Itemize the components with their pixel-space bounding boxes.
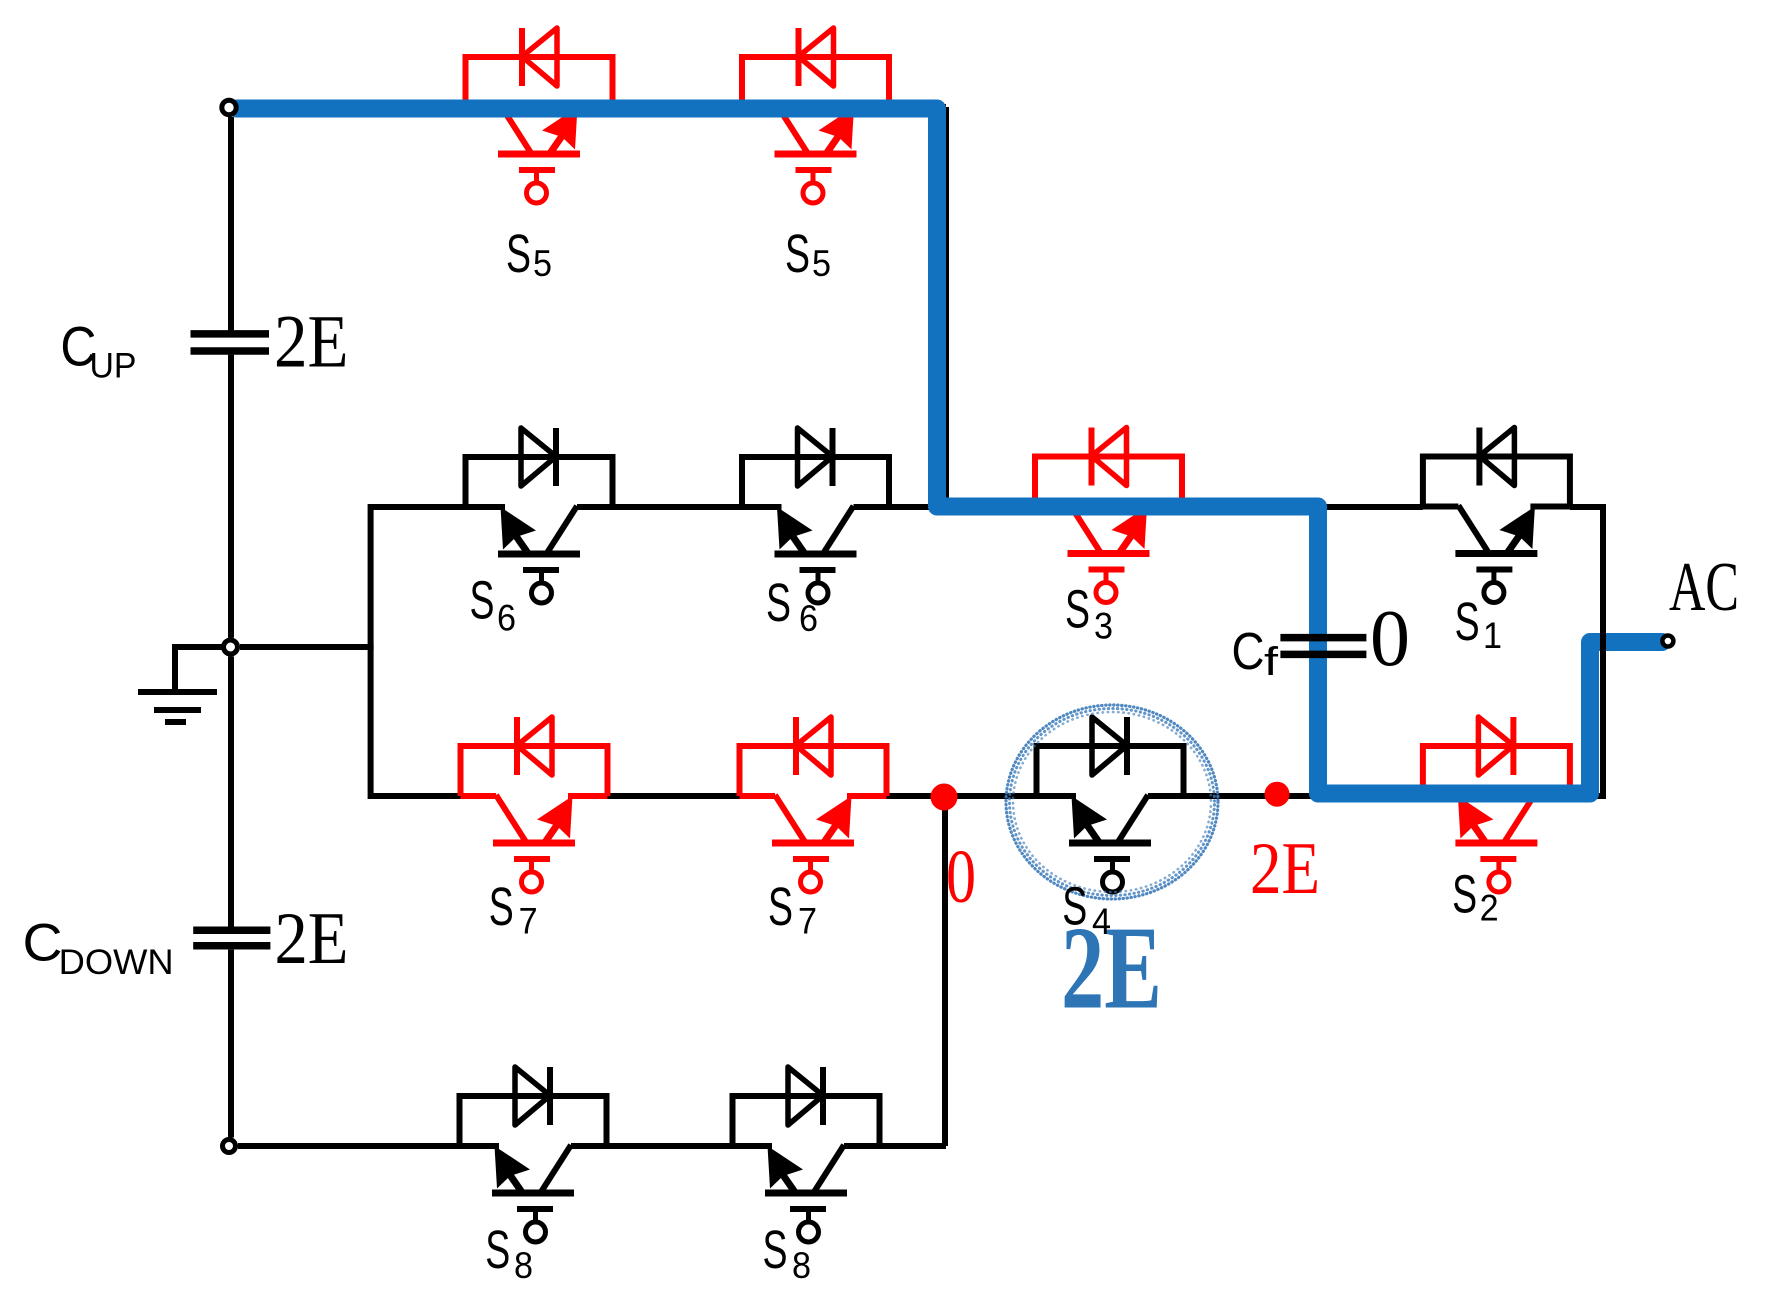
terminal bottom-left <box>223 1140 236 1153</box>
svg-text:C: C <box>1232 623 1265 681</box>
svg-text:6: 6 <box>497 598 516 639</box>
terminal neutral node <box>224 640 238 654</box>
svg-text:7: 7 <box>798 900 817 941</box>
transistor S5 (right) <box>742 28 889 203</box>
transistor S6 (left) <box>466 428 613 603</box>
transistor S8 (left) <box>460 1067 607 1242</box>
transistor S7 (right) <box>740 717 887 892</box>
svg-text:2E: 2E <box>1250 828 1320 910</box>
svg-text:S: S <box>785 224 810 284</box>
wire row C rail <box>371 793 1603 799</box>
svg-text:AC: AC <box>1669 549 1739 626</box>
svg-text:8: 8 <box>514 1245 533 1286</box>
transistor S6 (right) <box>742 428 889 603</box>
svg-text:S: S <box>768 877 793 937</box>
wire bottom rail <box>238 1143 946 1149</box>
transistor S7 (left) <box>461 717 608 892</box>
svg-text:S: S <box>1455 592 1480 652</box>
terminal top-left <box>222 100 236 114</box>
wire top-right vertical drop <box>943 107 949 507</box>
svg-text:2E: 2E <box>274 301 349 384</box>
wire top rail (+2E bus) <box>238 104 946 110</box>
svg-text:S: S <box>1065 580 1090 640</box>
node 0 junction dot <box>931 784 958 811</box>
dotted circle highlight around S4 <box>1006 705 1218 899</box>
transistor S3 <box>1035 428 1182 603</box>
transistor S8 (right) <box>733 1067 880 1242</box>
svg-text:6: 6 <box>799 598 818 639</box>
capacitor C_DOWN <box>193 930 270 945</box>
svg-text:f: f <box>1264 640 1279 684</box>
wire left branch vertical <box>368 504 374 799</box>
svg-text:S: S <box>485 1220 510 1280</box>
svg-text:UP: UP <box>90 346 137 385</box>
svg-text:S: S <box>470 570 495 630</box>
svg-text:S: S <box>489 877 514 937</box>
transistor S2 <box>1423 717 1570 892</box>
wire node-0 vertical <box>942 796 948 1146</box>
svg-text:5: 5 <box>533 243 552 284</box>
svg-text:2E: 2E <box>275 898 349 980</box>
svg-text:1: 1 <box>1483 615 1502 656</box>
node 2E junction dot <box>1265 782 1290 807</box>
svg-text:8: 8 <box>792 1245 811 1286</box>
capacitor C_UP <box>191 334 270 351</box>
svg-text:DOWN: DOWN <box>59 943 174 982</box>
svg-text:S: S <box>763 1220 788 1280</box>
svg-text:4: 4 <box>1092 901 1111 942</box>
transistor S5 (left) <box>466 28 613 203</box>
wire right output vertical (over path) <box>1600 504 1606 799</box>
svg-text:S: S <box>1452 865 1477 925</box>
svg-text:3: 3 <box>1094 605 1113 646</box>
svg-text:S: S <box>1062 877 1087 937</box>
wire row B rail <box>371 504 1603 510</box>
wire left DC-link rail <box>228 117 234 1138</box>
blue current path overlay <box>237 109 1662 794</box>
svg-text:2: 2 <box>1480 888 1499 929</box>
svg-text:S: S <box>506 224 531 284</box>
wire Cf stubs <box>1319 507 1325 792</box>
transistor S1 <box>1423 428 1570 603</box>
terminal AC <box>1662 636 1673 647</box>
svg-text:5: 5 <box>812 243 831 284</box>
transistor S4 <box>1037 717 1184 892</box>
svg-text:0: 0 <box>1370 595 1410 683</box>
svg-text:S: S <box>766 573 791 633</box>
svg-text:C: C <box>23 914 63 973</box>
ground <box>138 647 222 722</box>
wire AC stub <box>1603 638 1661 644</box>
capacitor C_f <box>1280 638 1366 655</box>
wire neutral mid rail <box>240 644 374 650</box>
svg-text:7: 7 <box>519 900 538 941</box>
svg-text:0: 0 <box>946 835 976 919</box>
